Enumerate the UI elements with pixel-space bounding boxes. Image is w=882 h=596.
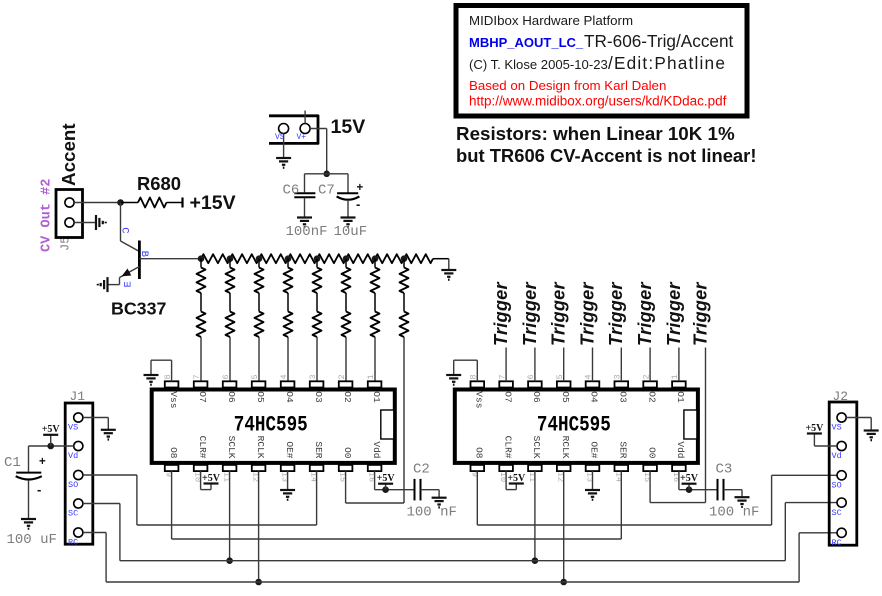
svg-text:C: C bbox=[119, 227, 131, 233]
svg-text:Trigger: Trigger bbox=[549, 282, 569, 346]
svg-text:CLR#: CLR# bbox=[197, 436, 208, 459]
svg-text:74HC595: 74HC595 bbox=[234, 413, 308, 439]
svg-text:Trigger: Trigger bbox=[520, 282, 540, 346]
svg-text:O4: O4 bbox=[589, 391, 600, 403]
svg-text:O1: O1 bbox=[675, 391, 686, 403]
svg-text:VS: VS bbox=[68, 423, 78, 433]
svg-text:Based on Design from Karl Dale: Based on Design from Karl Dalen bbox=[469, 78, 666, 93]
svg-text:Trigger: Trigger bbox=[577, 282, 597, 346]
svg-text:1: 1 bbox=[366, 374, 376, 379]
svg-text:CV Out #2: CV Out #2 bbox=[40, 179, 55, 252]
svg-text:+5V: +5V bbox=[507, 473, 526, 484]
svg-text:OE#: OE# bbox=[589, 441, 600, 458]
svg-text:Vdd: Vdd bbox=[675, 441, 686, 458]
svg-text:CLR#: CLR# bbox=[502, 436, 513, 459]
svg-text:O8: O8 bbox=[474, 447, 485, 459]
svg-text:BC337: BC337 bbox=[111, 299, 166, 319]
svg-text:Trigger: Trigger bbox=[491, 282, 511, 346]
svg-text:SC: SC bbox=[68, 509, 78, 519]
svg-text:SCLK: SCLK bbox=[531, 436, 542, 459]
svg-text:SO: SO bbox=[832, 481, 842, 491]
svg-text:SER: SER bbox=[313, 441, 324, 458]
svg-text:RC: RC bbox=[68, 538, 78, 548]
svg-text:O2: O2 bbox=[342, 391, 353, 403]
svg-text:B: B bbox=[138, 251, 150, 257]
svg-text:C3: C3 bbox=[716, 462, 733, 478]
svg-text:O7: O7 bbox=[502, 391, 513, 402]
svg-text:J1: J1 bbox=[70, 389, 86, 404]
svg-text:O7: O7 bbox=[197, 391, 208, 402]
svg-text:+: + bbox=[39, 456, 46, 468]
svg-text:/Edit:Phatline: /Edit:Phatline bbox=[608, 53, 726, 73]
svg-text:+5V: +5V bbox=[202, 473, 221, 484]
svg-text:RC: RC bbox=[832, 538, 842, 548]
svg-text:10uF: 10uF bbox=[334, 224, 368, 240]
svg-text:+5V: +5V bbox=[377, 473, 396, 484]
svg-text:O8: O8 bbox=[168, 447, 179, 459]
svg-text:RCLK: RCLK bbox=[255, 436, 266, 459]
svg-text:Trigger: Trigger bbox=[606, 282, 626, 346]
svg-text:+5V: +5V bbox=[680, 473, 699, 484]
svg-text:100nF: 100nF bbox=[286, 224, 328, 240]
svg-text:but TR606 CV-Accent is not lin: but TR606 CV-Accent is not linear! bbox=[456, 145, 756, 166]
svg-text:Trigger: Trigger bbox=[635, 282, 655, 346]
svg-text:O3: O3 bbox=[313, 391, 324, 403]
svg-text:+: + bbox=[357, 182, 364, 194]
svg-text:O0: O0 bbox=[646, 447, 657, 459]
svg-text:O6: O6 bbox=[531, 391, 542, 403]
svg-text:O5: O5 bbox=[560, 391, 571, 403]
svg-text:MIDIbox Hardware Platform: MIDIbox Hardware Platform bbox=[469, 13, 633, 28]
svg-text:(C) T. Klose 2005-10-23: (C) T. Klose 2005-10-23 bbox=[469, 57, 608, 72]
svg-text:C7: C7 bbox=[318, 183, 335, 199]
svg-text:C6: C6 bbox=[283, 183, 300, 199]
svg-text:Resistors: when Linear 10K 1%: Resistors: when Linear 10K 1% bbox=[456, 123, 735, 144]
svg-text:2: 2 bbox=[337, 374, 347, 379]
svg-text:O4: O4 bbox=[284, 391, 295, 403]
svg-text:4: 4 bbox=[279, 374, 289, 379]
svg-text:SC: SC bbox=[832, 508, 842, 518]
svg-text:C1: C1 bbox=[4, 455, 21, 471]
svg-text:VS: VS bbox=[832, 423, 842, 433]
svg-text:+15V: +15V bbox=[190, 192, 236, 214]
svg-text:74HC595: 74HC595 bbox=[537, 413, 611, 439]
svg-text:Trigger: Trigger bbox=[664, 282, 684, 346]
svg-text:+5V: +5V bbox=[42, 424, 61, 435]
svg-text:SER: SER bbox=[618, 441, 629, 458]
svg-text:100 uF: 100 uF bbox=[7, 532, 57, 548]
svg-text:MBHP_AOUT_LC_: MBHP_AOUT_LC_ bbox=[469, 35, 584, 50]
svg-text:100 nF: 100 nF bbox=[407, 505, 457, 521]
svg-text:-: - bbox=[37, 482, 41, 497]
svg-text:3: 3 bbox=[308, 374, 318, 379]
svg-text:O5: O5 bbox=[255, 391, 266, 403]
svg-text:+5V: +5V bbox=[805, 423, 824, 434]
svg-text:O0: O0 bbox=[342, 447, 353, 459]
svg-text:SO: SO bbox=[68, 480, 78, 490]
svg-text:5: 5 bbox=[250, 374, 260, 379]
svg-text:7: 7 bbox=[192, 374, 202, 379]
svg-text:O6: O6 bbox=[226, 391, 237, 403]
svg-text:E: E bbox=[123, 281, 135, 287]
svg-text:RCLK: RCLK bbox=[560, 436, 571, 459]
svg-text:SCLK: SCLK bbox=[226, 436, 237, 459]
svg-text:Trigger: Trigger bbox=[690, 282, 710, 346]
svg-text:Vd: Vd bbox=[832, 451, 842, 461]
svg-text:-: - bbox=[356, 197, 360, 212]
svg-text:OE#: OE# bbox=[284, 441, 295, 458]
svg-text:6: 6 bbox=[221, 374, 231, 379]
svg-text:Accent: Accent bbox=[58, 123, 79, 186]
svg-text:TR-606-Trig/Accent: TR-606-Trig/Accent bbox=[584, 31, 734, 51]
svg-text:V+: V+ bbox=[297, 133, 307, 142]
svg-text:J2: J2 bbox=[833, 389, 849, 404]
svg-text:R680: R680 bbox=[137, 173, 181, 194]
svg-text:C2: C2 bbox=[413, 462, 430, 478]
svg-text:100 nF: 100 nF bbox=[709, 505, 759, 521]
svg-text:Vss: Vss bbox=[168, 391, 179, 408]
svg-text:15V: 15V bbox=[331, 116, 366, 138]
svg-text:Vdd: Vdd bbox=[371, 441, 382, 458]
svg-text:http://www.midibox.org/users/k: http://www.midibox.org/users/kd/KDdac.pd… bbox=[469, 94, 727, 109]
svg-text:Vss: Vss bbox=[474, 391, 485, 408]
svg-text:O2: O2 bbox=[646, 391, 657, 403]
svg-text:Vd: Vd bbox=[68, 451, 78, 461]
svg-text:BC337: BC337 bbox=[196, 297, 199, 299]
svg-text:O3: O3 bbox=[618, 391, 629, 403]
svg-text:O1: O1 bbox=[371, 391, 382, 403]
